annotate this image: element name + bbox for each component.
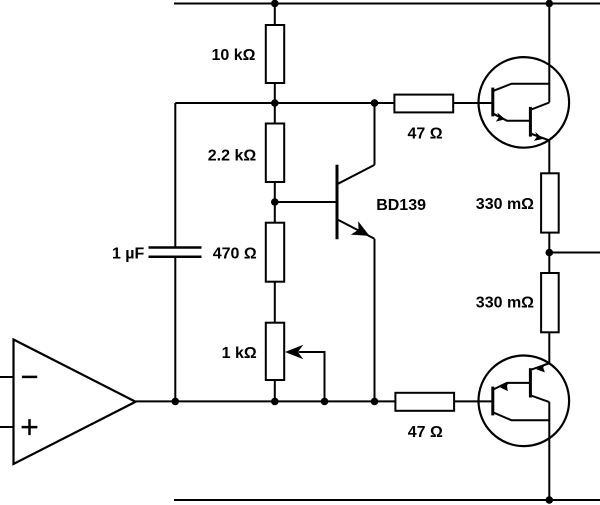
op-amp U1 non-inverting input lead [0,426,14,428]
label Q1 BD139 [376,197,426,214]
wire: Q3 collector to bottom rail [548,402,550,500]
wire: R3 to R4 potentiometer [274,282,276,323]
transistor Q1 emitter arrow [351,221,370,236]
transistor Q2 inner first emitter arrow [496,113,505,122]
transistor Q3 inner second emitter [532,363,550,369]
wire: R2 to R3 through BD139 base node [274,182,276,223]
label R3 value 470 Ohm [213,245,257,262]
transistor Q2 inner first base bar [491,88,494,117]
node: mid net BD139 collector junction [371,99,379,107]
label R5 value 47 Ohm [407,126,442,143]
wire: bottom negative supply rail [174,499,600,501]
capacitor C1 1 uF bottom plate [149,256,202,259]
wire: R5 to Q2 base lead [453,102,493,104]
wire: output line from op-amp to R6 47ohm [136,400,396,402]
wire: R8 to Q3 emitter [548,332,550,363]
svg-text:330 mΩ: 330 mΩ [476,196,534,213]
transistor Q1 collector diagonal [338,165,375,184]
wire: BD139 base lead [275,201,337,203]
potentiometer R4 wiper arrow [285,345,303,359]
transistor Q2 inner second emitter [532,134,550,140]
transistor Q2 inner second emitter arrow [534,132,543,141]
resistor R8 330 mOhm bottom [541,273,559,332]
transistor Q2 NPN darlington circle [479,57,570,148]
label R8 value 330 mOhm [476,295,534,312]
node: mid net left junction [271,99,279,107]
op-amp U1 minus symbol [22,376,37,379]
wire: BD139 emitter vertical to output line [374,239,376,402]
label R1 value 10 kOhm [212,47,256,64]
wire: potentiometer wiper to output line [299,352,325,401]
transistor Q3 inner first emitter [494,383,531,390]
transistor Q3 inner first base bar [491,387,494,416]
wire: mid horizontal net y=103 from left branch to R5 47ohm [175,102,394,104]
op-amp U1 triangle [14,340,136,465]
label C1 value 1 uF [112,245,145,262]
node: output line R4 junction [271,398,279,406]
wire: BD139 collector vertical to mid net [374,103,376,165]
wire: top positive supply rail [174,3,600,5]
transistor Q3 inner second collector [532,396,550,402]
label R2 value 2.2 kOhm [208,148,257,165]
transistor Q3 inner second emitter arrow [536,363,545,372]
wire: R7 to R8 through output node [548,233,550,273]
transistor Q2 inner second base bar [529,107,532,137]
op-amp U1 inverting input lead [0,376,14,378]
transistor Q3 inner first collector [494,413,550,421]
wire: top rail to R1 [274,4,276,26]
transistor Q1 BD139 base bar [336,165,339,240]
transistor Q2 inner second collector [532,103,550,110]
capacitor C1 1 uF top plate [149,246,202,249]
resistor R2 2.2 kOhm [266,124,284,183]
resistor R5 47 Ohm top [394,95,453,113]
transistor Q3 inner first emitter arrow [500,382,509,392]
svg-text:47 Ω: 47 Ω [408,424,443,441]
svg-text:470 Ω: 470 Ω [213,245,257,262]
op-amp U1 plus symbol [22,419,38,435]
wire: R1 to R2 [274,83,276,124]
svg-text:10 kΩ: 10 kΩ [212,47,256,64]
wire: top rail to Q2 collector [548,4,550,103]
svg-text:BD139: BD139 [376,197,426,214]
transistor Q2 inner first collector [494,84,550,91]
svg-text:1 µF: 1 µF [112,245,145,262]
label R6 value 47 Ohm [408,424,443,441]
wire: capacitor bottom to output node [174,258,176,402]
node: output line wiper junction [321,398,329,406]
label R4 value 1 kOhm [222,345,257,362]
transistor Q3 PNP darlington circle [479,356,570,447]
potentiometer R4 1 kOhm body [266,323,284,380]
svg-text:330 mΩ: 330 mΩ [476,295,534,312]
node: output line capacitor junction [172,398,180,406]
svg-text:1 kΩ: 1 kΩ [222,345,257,362]
wire: left vertical branch down to capacitor top [174,103,176,247]
node: output line BD139 emitter junction [371,398,379,406]
resistor R7 330 mOhm top [541,173,559,232]
resistor R3 470 Ohm [266,223,284,282]
label R7 value 330 mOhm [476,196,534,213]
transistor Q3 inner second base bar [529,368,532,397]
node: BD139 base junction [271,198,279,206]
node: bottom rail Q3 collector junction [546,496,554,504]
transistor Q2 inner first emitter [494,114,531,121]
transistor Q1 emitter diagonal [338,220,375,239]
wire: R6 to Q3 base lead [454,400,493,402]
node: speaker output junction [546,249,554,257]
svg-text:47 Ω: 47 Ω [407,126,442,143]
node: top rail R1 junction [271,0,279,7]
wire: R4 bottom to output line [274,380,276,401]
wire: output node to right edge [549,252,600,254]
resistor R1 10 kOhm [266,25,284,83]
node: top rail Q2 collector junction [546,0,554,7]
resistor R6 47 Ohm bottom [395,393,454,411]
wire: Q2 emitter to R7 330mohm [548,141,550,174]
svg-text:2.2 kΩ: 2.2 kΩ [208,148,257,165]
